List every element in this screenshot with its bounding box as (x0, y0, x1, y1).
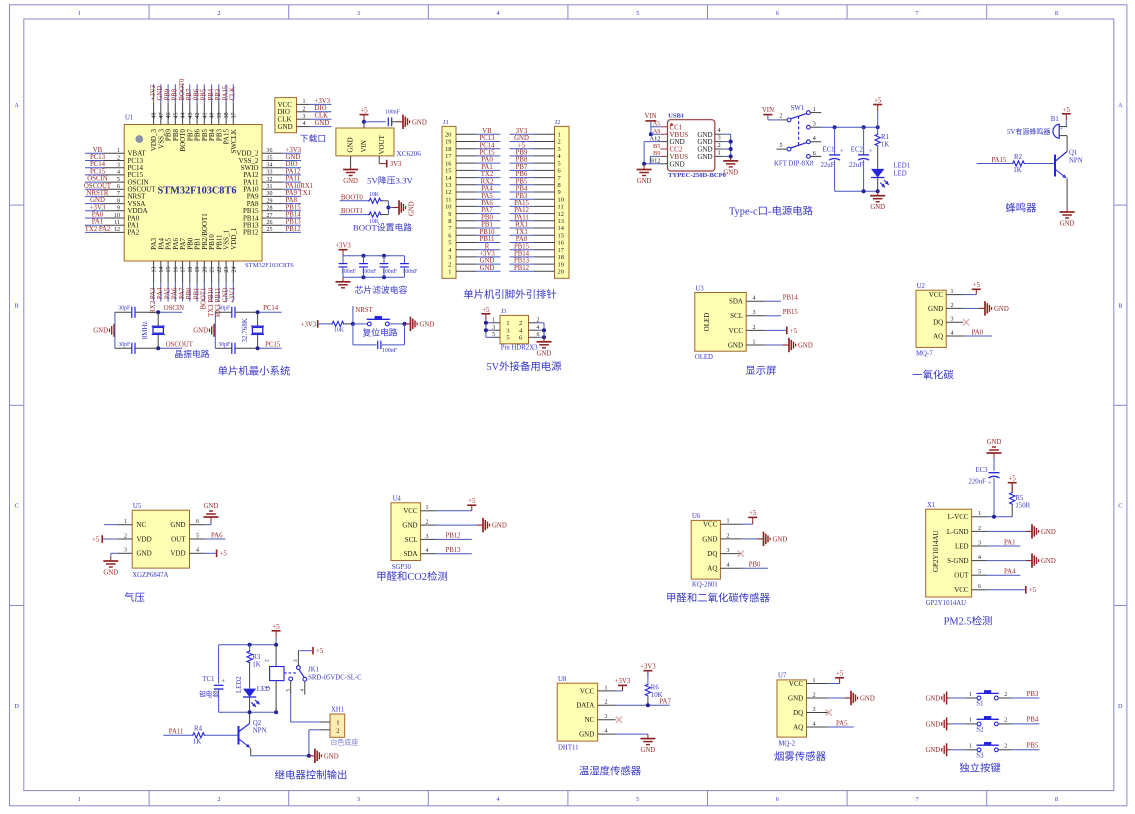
X1 pin 3 LED (955, 540, 987, 550)
svg-text:6: 6 (117, 184, 120, 190)
capacitor 100nF reset (378, 341, 398, 354)
svg-text:PA7: PA7 (481, 207, 493, 214)
svg-text:GND: GND (870, 204, 885, 211)
svg-text:DQ: DQ (793, 709, 803, 717)
svg-text:1: 1 (969, 692, 972, 698)
svg-text:PB0: PB0 (186, 287, 193, 299)
svg-text:21: 21 (210, 267, 216, 273)
svg-text:USB1: USB1 (668, 113, 684, 120)
svg-text:3: 3 (303, 114, 306, 120)
wire net PB4 (208, 84, 215, 102)
wire VIN to sw pin2 (768, 119, 787, 121)
svg-text:PA11: PA11 (286, 176, 301, 183)
U1 pin 1 VBAT (103, 148, 146, 158)
wire net PC14 (476, 142, 501, 149)
svg-text:10: 10 (445, 204, 451, 211)
svg-text:2: 2 (124, 533, 127, 539)
gnd tag L-GND (987, 524, 1056, 538)
svg-text:PA12: PA12 (514, 207, 529, 214)
svg-text:27: 27 (267, 213, 273, 219)
svg-text:32.768K: 32.768K (241, 318, 249, 342)
svg-text:U5: U5 (133, 503, 142, 510)
svg-text:DIO: DIO (286, 161, 298, 168)
svg-text:B: B (14, 302, 18, 309)
svg-text:X1: X1 (927, 502, 935, 509)
wire net PB3 (510, 193, 535, 200)
svg-text:1: 1 (124, 519, 127, 525)
svg-text:AQ: AQ (707, 565, 717, 573)
resistor R3 1K (247, 645, 261, 689)
svg-text:PA1: PA1 (481, 164, 492, 171)
wire net PA4 (987, 569, 1021, 576)
svg-text:EC1: EC1 (823, 146, 835, 153)
svg-text:17: 17 (558, 247, 565, 254)
svg-text:PB8: PB8 (516, 157, 528, 164)
caption independent buttons (959, 762, 1001, 775)
resistor R1 1K (875, 127, 889, 169)
U7 pin 2 GND (788, 692, 828, 702)
gnd tag button S1 (925, 692, 950, 705)
U1 pin 39 PB3 (215, 102, 223, 141)
svg-text:2: 2 (336, 728, 339, 735)
svg-text:48: 48 (152, 113, 158, 119)
svg-text:PB9: PB9 (516, 150, 528, 157)
svg-text:2: 2 (753, 325, 756, 331)
svg-text:1: 1 (558, 132, 561, 139)
J3 pin 1 (492, 317, 510, 327)
J1 pin 13 (445, 182, 476, 189)
caption display (745, 365, 776, 377)
svg-text:LED: LED (955, 542, 969, 550)
svg-text:+5: +5 (1009, 476, 1017, 483)
wire net PA11 (283, 176, 301, 183)
U1 pin 32 PA11 (243, 177, 282, 187)
svg-text:PB6: PB6 (193, 88, 200, 100)
wire relay top rail (219, 643, 279, 647)
svg-text:22uF: 22uF (849, 162, 863, 169)
svg-text:20: 20 (202, 267, 208, 273)
svg-text:+3V3: +3V3 (315, 98, 331, 105)
U3 pin 4 SDA (729, 296, 765, 306)
svg-text:46: 46 (166, 113, 172, 119)
svg-text:6: 6 (448, 232, 451, 239)
svg-text:2: 2 (718, 142, 721, 149)
svg-text:33: 33 (267, 170, 273, 176)
svg-text:OSCOUT: OSCOUT (166, 342, 194, 349)
svg-text:PB3: PB3 (1027, 691, 1039, 698)
wire net PB15 (510, 243, 535, 250)
wire gnd to button S2 (951, 718, 977, 724)
svg-text:TX2: TX2 (481, 171, 494, 178)
svg-text:4: 4 (426, 548, 429, 554)
svg-text:TC1: TC1 (202, 676, 214, 683)
svg-text:PA0: PA0 (92, 212, 104, 219)
svg-text:6: 6 (776, 796, 779, 803)
caption HCHO CO2 sensor (666, 592, 771, 605)
svg-text:白色底座: 白色底座 (330, 738, 358, 747)
U1 pin 9 VDDA (103, 206, 147, 216)
J2 pin 9 (534, 189, 561, 196)
svg-text:GND: GND (343, 178, 358, 185)
gnd earth u5 left (103, 553, 118, 576)
svg-text:PB12: PB12 (243, 229, 259, 237)
svg-text:20: 20 (558, 269, 564, 276)
svg-text:19: 19 (445, 139, 451, 146)
svg-text:钽电容: 钽电容 (199, 690, 219, 699)
connector P1 download port body (275, 98, 297, 133)
power +5 mq2 (828, 671, 844, 684)
U5 NC wire (104, 524, 117, 526)
svg-text:PC13: PC13 (479, 135, 495, 142)
wire net PB0 (186, 283, 193, 301)
svg-text:18: 18 (188, 267, 194, 273)
svg-text:GND: GND (579, 731, 594, 739)
svg-text:GND: GND (514, 135, 529, 142)
svg-text:STM32F103C8T6: STM32F103C8T6 (245, 262, 294, 269)
svg-text:PA8: PA8 (286, 197, 298, 204)
svg-text:+5: +5 (874, 98, 882, 105)
wire B12 row (642, 162, 660, 166)
svg-text:PC15: PC15 (479, 150, 495, 157)
svg-text:1: 1 (506, 320, 509, 327)
J2 pin 19 (534, 261, 564, 268)
svg-text:3: 3 (727, 548, 730, 554)
svg-text:R3: R3 (252, 654, 261, 661)
caption download port (300, 133, 326, 144)
resistor R4 1K (192, 726, 239, 746)
push button reset (367, 316, 390, 326)
svg-text:GND: GND (409, 201, 416, 216)
IC U4 SGP30 body (391, 496, 421, 571)
svg-text:GND: GND (204, 503, 219, 510)
svg-text:OUT: OUT (954, 572, 969, 580)
U1 pin 4 PC15 (103, 170, 143, 180)
SW1 part name (774, 161, 814, 168)
svg-text:150R: 150R (1015, 503, 1030, 510)
J2 pin 7 (534, 175, 562, 182)
svg-text:A: A (1118, 102, 1123, 109)
U6 pin 2 GND (702, 533, 741, 543)
svg-text:18: 18 (445, 146, 451, 153)
gnd tag right of cap (397, 115, 427, 129)
svg-text:GND: GND (93, 328, 108, 335)
svg-text:TYPEC-250D-BCP6: TYPEC-250D-BCP6 (668, 172, 727, 179)
U4 pin 1 VCC (403, 505, 436, 515)
svg-text:+5: +5 (1063, 107, 1071, 114)
U1 pin 17 PA7 (179, 237, 187, 283)
svg-text:1: 1 (753, 339, 756, 345)
gnd tag relay (309, 749, 339, 763)
J1 pin 8 (448, 218, 476, 225)
svg-text:42: 42 (195, 113, 201, 119)
U8 pin 3 NC (585, 714, 616, 724)
svg-text:PA6: PA6 (481, 200, 493, 207)
caption relay control output (275, 769, 348, 782)
svg-text:220uF: 220uF (969, 479, 987, 486)
wire net +3V3 (476, 251, 501, 258)
power +5 u6 (742, 510, 758, 524)
wire net DIO (283, 161, 301, 168)
svg-text:1: 1 (813, 107, 816, 113)
J2 pin 5 (534, 160, 561, 167)
svg-text:10K: 10K (369, 192, 380, 198)
caption smoke sensor (774, 750, 827, 763)
svg-text:16: 16 (173, 267, 179, 273)
LED1 diode (871, 163, 910, 192)
wire sw pin3 to rail (821, 125, 880, 129)
wire net PC14 (85, 161, 106, 168)
U1 pin 11 PA1 (103, 220, 139, 230)
J1 pin 16 (445, 160, 476, 167)
wire net PC13 (476, 135, 501, 142)
svg-text:JK1: JK1 (308, 667, 319, 674)
wire net PA8 (283, 197, 301, 204)
U1 pin 19 PB1 (194, 237, 202, 283)
U8 pin 4 GND (579, 729, 615, 739)
power +3V3 filter rail (335, 243, 351, 256)
net label BOOT0 (340, 194, 369, 201)
wire emitter rail to gnd (251, 754, 311, 758)
svg-text:2: 2 (727, 533, 730, 539)
caption PM2.5 detect (944, 615, 993, 628)
svg-text:13: 13 (152, 267, 158, 273)
svg-text:GND: GND (157, 86, 164, 101)
svg-text:1: 1 (78, 10, 81, 17)
caption 5V buck 3.3V (367, 175, 413, 186)
svg-text:KFT DIP-8X8: KFT DIP-8X8 (774, 161, 814, 168)
svg-text:+: + (1060, 127, 1063, 133)
svg-text:+5: +5 (790, 328, 798, 335)
no connect DQ mq2 (826, 709, 832, 715)
U3 pin 2 VCC (729, 325, 766, 335)
wire net GND (476, 265, 501, 272)
crystal 8MHz (141, 312, 165, 348)
wire net VB (476, 128, 501, 135)
wire net PA0 (963, 329, 992, 336)
J2 pin 15 (534, 232, 564, 239)
wire net OSCIN (85, 176, 108, 183)
wire net PB7 (186, 84, 193, 102)
svg-text:2: 2 (217, 796, 220, 803)
svg-text:单片机最小系统: 单片机最小系统 (218, 365, 291, 378)
J3 pin 6 (519, 332, 539, 342)
svg-text:1: 1 (426, 505, 429, 511)
svg-text:单片机引脚外引排针: 单片机引脚外引排针 (463, 288, 557, 301)
svg-text:8: 8 (448, 218, 451, 225)
svg-text:SDA: SDA (729, 298, 743, 306)
relay JK1 switch (284, 651, 307, 695)
svg-text:1: 1 (605, 685, 608, 691)
U4 pin 3 SCL (405, 534, 436, 544)
svg-text:3: 3 (813, 707, 816, 713)
svg-text:GND: GND (420, 322, 435, 329)
svg-text:PB13: PB13 (445, 547, 461, 554)
U6 pin 1 VCC (703, 519, 742, 529)
wire net PB0 (476, 214, 501, 221)
capacitor 100nF #4 (400, 256, 418, 278)
wire net GND (283, 154, 301, 161)
gnd tag button S3 (925, 743, 950, 756)
svg-text:2: 2 (1004, 744, 1007, 750)
wire net GND (510, 135, 535, 142)
svg-text:PB14: PB14 (286, 212, 302, 219)
svg-text:18: 18 (558, 254, 564, 261)
svg-text:+5: +5 (973, 282, 981, 289)
U1 pin 45 PB8 (172, 102, 180, 141)
U1 pin 27 PB14 (243, 213, 283, 223)
XH1 pin stubs (320, 722, 330, 730)
svg-text:36: 36 (267, 148, 273, 154)
J2 pin 4 (534, 153, 562, 160)
svg-text:PB0: PB0 (749, 562, 761, 569)
wire net PB9 (510, 150, 535, 157)
transistor Q2 NPN (239, 712, 267, 756)
J3 pin 4 (519, 325, 539, 335)
wire net PA5 (164, 283, 171, 301)
svg-text:17: 17 (181, 267, 187, 273)
U5 pin 1 NC (117, 519, 146, 529)
capacitor EC3 220uF (969, 458, 1000, 517)
IC U5 XGZP6847A body (132, 503, 189, 579)
svg-text:GND: GND (315, 120, 330, 127)
svg-text:C: C (14, 503, 18, 510)
svg-text:3: 3 (813, 122, 816, 128)
wire junction to gnd (386, 201, 393, 215)
svg-text:5: 5 (636, 796, 639, 803)
caption pressure (124, 591, 145, 604)
svg-text:气压: 气压 (124, 591, 145, 604)
svg-text:GND: GND (1041, 529, 1056, 536)
USB1 pin A12 GND (649, 135, 684, 146)
svg-text:PB14: PB14 (514, 251, 530, 258)
J3 pin 2 (519, 317, 539, 327)
svg-text:+5: +5 (518, 142, 526, 149)
wire net PB15 (765, 309, 798, 316)
svg-text:3: 3 (357, 10, 360, 17)
U1 pin 43 PB7 (186, 102, 194, 141)
J2 pin 18 (534, 254, 564, 261)
svg-text:6: 6 (813, 151, 816, 157)
svg-text:BOOT1: BOOT1 (341, 208, 363, 215)
svg-text:4: 4 (813, 721, 816, 727)
J2 pin 20 (534, 269, 564, 276)
svg-text:PA5: PA5 (481, 193, 493, 200)
svg-text:PA0: PA0 (972, 329, 984, 336)
U1 pin 40 PB4 (208, 102, 216, 141)
U4 pin 4 SDA (404, 548, 436, 558)
svg-text:PA15: PA15 (514, 200, 529, 207)
power +5 u4 (436, 498, 476, 511)
LED2 diode (236, 676, 270, 712)
U1 pin 30 PA9 (247, 191, 283, 201)
svg-text:PA1: PA1 (1004, 539, 1015, 546)
svg-text:SDA: SDA (404, 550, 418, 558)
svg-text:OSCIN: OSCIN (164, 305, 184, 312)
svg-text:+3V3: +3V3 (479, 251, 495, 258)
svg-text:14: 14 (558, 225, 565, 232)
svg-text:GND: GND (480, 258, 495, 265)
svg-text:U3: U3 (695, 285, 704, 292)
svg-text:PC14: PC14 (479, 142, 495, 149)
USB1 pin 2 GND (697, 142, 722, 154)
wire net PA12 (283, 168, 301, 175)
capacitor EC2 22uF (849, 127, 873, 191)
svg-text:S2: S2 (976, 727, 984, 734)
J1 pin 6 (448, 232, 476, 239)
U1 pin 37 SWCLK (230, 102, 238, 153)
wire XH1 pin2 to gnd rail (309, 730, 320, 756)
wire net RX2 PA3 (150, 283, 157, 313)
wire net PB9 (164, 84, 171, 102)
download port pin 4 GND (278, 121, 310, 131)
svg-text:32: 32 (267, 177, 273, 183)
U3 pin 1 GND (728, 339, 765, 349)
wire net PB14 (765, 295, 798, 302)
svg-text:4: 4 (951, 330, 954, 336)
svg-text:VB: VB (93, 147, 103, 154)
svg-text:12: 12 (445, 189, 451, 196)
svg-text:1: 1 (492, 317, 495, 323)
XC6206 part name (397, 150, 422, 158)
svg-text:DATA: DATA (576, 702, 594, 710)
svg-text:PB0: PB0 (481, 214, 493, 221)
svg-text:PA11: PA11 (169, 729, 184, 736)
svg-text:2: 2 (978, 526, 981, 532)
svg-text:100nF: 100nF (341, 269, 357, 275)
wire net PB12 (510, 265, 535, 272)
svg-text:+5: +5 (749, 510, 757, 517)
connector XH1 body (330, 707, 345, 738)
wire PA15 base (977, 157, 1012, 164)
svg-text:15: 15 (445, 168, 451, 175)
svg-text:PC14: PC14 (90, 161, 106, 168)
svg-text:1: 1 (969, 718, 972, 724)
capacitor 30pF top (118, 306, 135, 318)
J2 pin 2 (534, 139, 561, 146)
caption buzzer (1005, 202, 1037, 215)
wire net 3V3 (510, 128, 535, 135)
switch SW1 (787, 105, 810, 158)
wire net PA4 (476, 186, 501, 193)
svg-text:1K: 1K (1013, 167, 1021, 174)
svg-text:15: 15 (558, 232, 564, 239)
svg-text:8MHz: 8MHz (141, 321, 149, 339)
gnd tag mq7 (963, 301, 1009, 315)
filter gnd earth (336, 277, 351, 288)
svg-text:DHT11: DHT11 (558, 744, 579, 751)
svg-text:1: 1 (813, 678, 816, 684)
wire relay pin3 to +5 (298, 647, 323, 655)
X1 pin 6 VCC (954, 584, 986, 594)
svg-text:38: 38 (224, 113, 230, 119)
svg-text:100nF: 100nF (382, 348, 398, 354)
svg-text:GND: GND (492, 523, 507, 530)
wire L-VCC node (987, 515, 1013, 519)
svg-text:VCC: VCC (729, 327, 744, 335)
no connect NC dht11 (616, 717, 622, 723)
filter top rail wire (343, 254, 405, 258)
U1 designator (125, 115, 133, 122)
svg-text:29: 29 (267, 198, 273, 204)
J1 pin 9 (448, 211, 476, 218)
svg-text:7: 7 (915, 10, 918, 17)
svg-text:34: 34 (267, 163, 273, 169)
wire button to gnd node (389, 322, 406, 326)
svg-text:PA5: PA5 (836, 720, 848, 727)
svg-text:19: 19 (558, 261, 564, 268)
wire net CLK (230, 84, 237, 102)
svg-text:2: 2 (1004, 718, 1007, 724)
